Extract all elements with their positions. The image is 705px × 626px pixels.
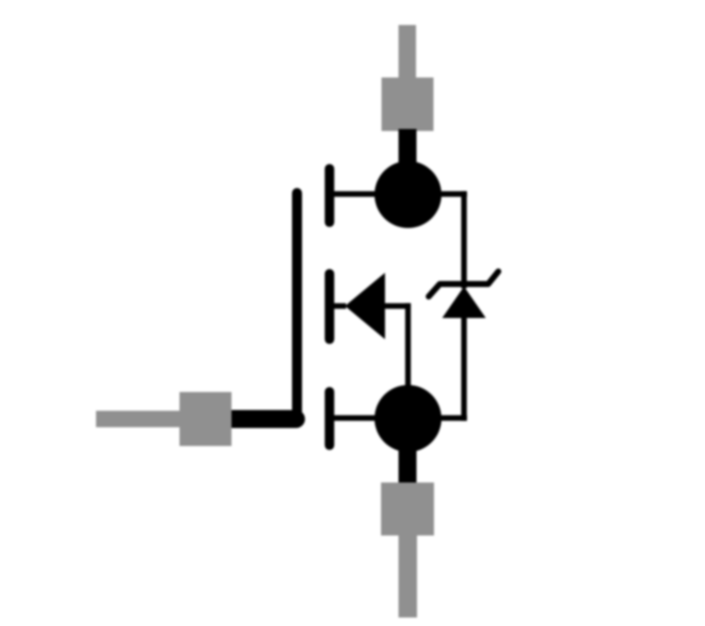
node D drain junction dot xyxy=(375,161,442,228)
body diode D1 arrow (points into channel) xyxy=(334,273,411,339)
wire W1 drain lead (gray, top) xyxy=(399,25,417,80)
node S source junction dot xyxy=(375,385,442,452)
wire W6 source connection (source bar through source node to right branch) xyxy=(333,415,467,421)
wire W4 right branch vertical (drain to zener cathode) xyxy=(461,191,467,288)
transistor Q1 drain channel segment xyxy=(325,169,335,223)
transistor Q1 gate electrode bar xyxy=(292,193,302,419)
wire W7 gate stub (black thick, pad to gate bar) xyxy=(231,410,296,428)
pad P3 source terminal xyxy=(381,483,434,536)
wire W3 drain connection (drain bar to right branch) xyxy=(333,191,467,197)
zener diode D2 anode triangle xyxy=(442,287,486,319)
zener diode D2 cathode bar with bent tails xyxy=(429,272,499,297)
wire W2 drain stub (black thick, pad to drain node) xyxy=(399,129,417,195)
pad P1 drain terminal xyxy=(382,78,434,132)
pad P2 gate terminal xyxy=(180,392,232,446)
transistor Q1 source channel segment xyxy=(325,392,335,446)
wire W11 source lead (gray, bottom) xyxy=(399,534,418,618)
wire W8 body diode drop to source node xyxy=(405,303,411,393)
transistor Q1 body channel segment xyxy=(325,274,335,340)
wire W5 right branch vertical (zener anode to source line) xyxy=(461,316,467,421)
wire W10 source stub (black thick, source node to pad) xyxy=(399,450,417,484)
wire W9 gate lead (gray, left) xyxy=(96,411,180,427)
